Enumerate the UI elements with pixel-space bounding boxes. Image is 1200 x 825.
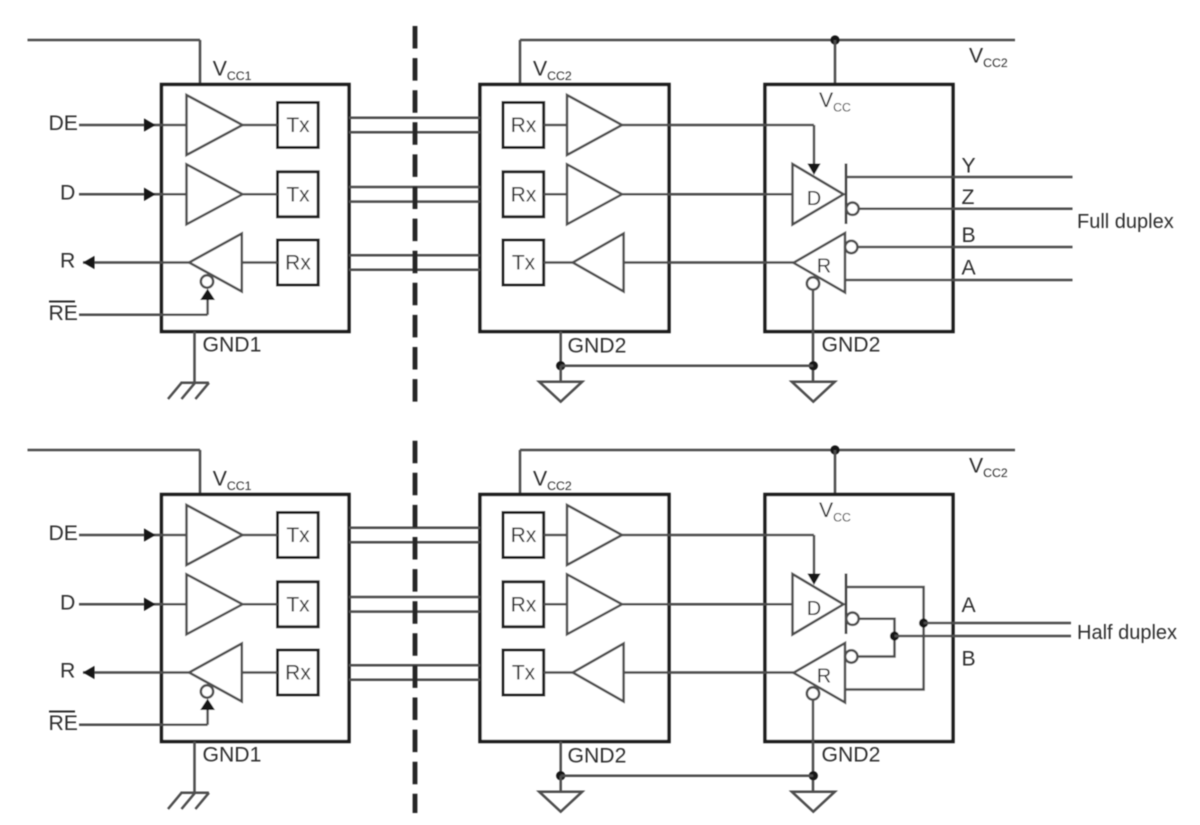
bottom: wire ch1 buffer to Tx1 xyxy=(243,534,278,537)
svg-text:Tx: Tx xyxy=(512,662,536,685)
svg-text:RE: RE xyxy=(49,302,78,325)
bottom: wire RE input with enable arrow xyxy=(79,700,214,725)
top: wire bus line A xyxy=(845,279,1073,282)
top: wire GND2 stem (isolator) xyxy=(559,332,562,366)
top: isolation channel-3 wire pair xyxy=(349,255,480,270)
top: wire GND1 stem xyxy=(193,332,196,383)
bottom: isolation channel-3 wire pair xyxy=(349,665,480,680)
svg-text:Rx: Rx xyxy=(285,252,311,275)
bottom: label VCC1 xyxy=(213,468,252,494)
svg-text:D: D xyxy=(807,188,821,210)
top: wire D input xyxy=(79,189,187,201)
svg-text:GND2: GND2 xyxy=(568,745,627,768)
top: label Z xyxy=(962,186,975,209)
svg-text:VCC1: VCC1 xyxy=(213,468,252,494)
bottom: wire bus line A xyxy=(924,622,1071,625)
bottom: wire VCC stem into transceiver xyxy=(834,450,837,495)
top: junction node GND2 right xyxy=(809,361,818,370)
svg-text:Z: Z xyxy=(962,186,975,209)
bottom: label B xyxy=(962,648,976,671)
bottom: wire R output xyxy=(83,667,189,679)
bottom: buffer amp channel-1 side-2 xyxy=(567,505,622,565)
top: wire ch2 buffer to Tx2 xyxy=(243,193,278,196)
bottom: wire Y looped to A input xyxy=(845,587,924,690)
bottom: wire Rx3 to ch2 buffer xyxy=(544,603,567,606)
svg-text:R: R xyxy=(817,666,831,688)
svg-text:D: D xyxy=(807,598,821,620)
top: wire Rx1 to ch3 buffer xyxy=(242,261,278,264)
bottom: label VCC (transceiver) xyxy=(819,499,851,525)
bottom: RS-485 transceiver block U2 xyxy=(765,495,953,742)
top: wire VCC1 supply rail xyxy=(28,40,201,85)
svg-text:VCC2: VCC2 xyxy=(533,468,572,494)
top: isolation channel-1 wire pair xyxy=(349,118,480,133)
top: driver output bar xyxy=(845,164,848,225)
bottom: label R (receiver) xyxy=(817,666,831,688)
bottom: wire GND2 stub left xyxy=(559,776,562,792)
bottom: label A xyxy=(962,594,977,617)
svg-text:A: A xyxy=(962,257,977,280)
svg-text:RE: RE xyxy=(49,712,78,735)
top: label B xyxy=(962,224,976,247)
svg-text:VCC2: VCC2 xyxy=(969,45,1008,71)
svg-text:D: D xyxy=(60,591,75,614)
top: label DE xyxy=(49,112,78,135)
svg-text:B: B xyxy=(962,224,976,247)
bottom: ground symbol GND2 right xyxy=(792,792,835,812)
top: label A xyxy=(962,257,977,280)
top: label R xyxy=(60,250,75,273)
svg-text:VCC2: VCC2 xyxy=(533,58,572,84)
bottom: wire D input xyxy=(79,599,187,611)
top: wire VCC stem into transceiver xyxy=(834,40,837,85)
top: junction node VCC2/VCC xyxy=(830,35,839,44)
svg-text:D: D xyxy=(60,181,75,204)
bottom: driver D triangle xyxy=(793,574,844,635)
bottom: inverting bubble B input xyxy=(845,650,857,662)
bottom: isolation receiver box Rx2 (side-2) xyxy=(503,513,544,558)
bottom: label D xyxy=(60,591,75,614)
top: wire D data to driver xyxy=(622,193,793,196)
bottom: isolation transmitter box Tx1 (side-1) xyxy=(278,513,319,558)
top: buffer amp channel-2 (D) xyxy=(187,164,243,224)
svg-text:Rx: Rx xyxy=(285,662,311,685)
bottom: buffer amp channel-3 side-2 xyxy=(573,644,624,702)
bottom: wire GND2 rail xyxy=(561,774,814,777)
top: wire bus line B xyxy=(858,246,1073,249)
bottom: wire DE input xyxy=(79,529,187,541)
top: wire RE input with enable arrow xyxy=(79,290,214,315)
svg-text:GND2: GND2 xyxy=(568,335,627,358)
top: wire bus line Y xyxy=(846,176,1073,179)
top: label Full duplex xyxy=(1077,211,1174,233)
svg-text:Full duplex: Full duplex xyxy=(1077,211,1174,233)
bottom: digital isolator block U1 side-2 xyxy=(480,495,669,742)
svg-text:Rx: Rx xyxy=(511,594,537,617)
svg-text:Tx: Tx xyxy=(286,184,310,207)
top: wire GND2 rail xyxy=(561,364,814,367)
svg-text:VCC1: VCC1 xyxy=(213,58,252,84)
top: wire receiver R output xyxy=(624,261,794,264)
top: label GND2 (isolator) xyxy=(568,335,627,358)
bottom: label DE xyxy=(49,522,78,545)
top: label VCC2 (isolator) xyxy=(533,58,572,84)
top: receiver enable bubble xyxy=(807,277,819,289)
top: wire DE enable to driver xyxy=(622,125,820,174)
svg-text:GND1: GND1 xyxy=(203,744,262,767)
svg-text:Half duplex: Half duplex xyxy=(1077,622,1177,644)
bottom: receiver R triangle xyxy=(794,643,846,703)
bottom: label GND2 (transceiver) xyxy=(822,744,881,767)
top: wire ch1 buffer to Tx1 xyxy=(243,124,278,127)
bottom: inverting bubble Z xyxy=(846,613,858,625)
bottom: buffer amp channel-3 (R, output) xyxy=(189,644,242,702)
svg-text:GND2: GND2 xyxy=(822,334,881,357)
top: label Y xyxy=(962,155,976,178)
svg-text:A: A xyxy=(962,594,977,617)
bottom: wire ch3 buffer to Tx3 xyxy=(544,671,573,674)
bottom: driver output bar xyxy=(845,574,848,635)
svg-text:GND2: GND2 xyxy=(822,744,881,767)
top: buffer amp channel-2 side-2 xyxy=(567,164,622,224)
bottom: label R xyxy=(60,660,75,683)
bottom: isolation channel-2 wire pair xyxy=(349,597,480,612)
bottom: wire VCC2 supply rail xyxy=(520,450,1015,495)
top: label VCC1 xyxy=(213,58,252,84)
bottom: label D (driver) xyxy=(807,598,821,620)
bottom: junction node VCC2/VCC xyxy=(830,445,839,454)
bottom: wire DE enable to driver xyxy=(622,535,820,584)
bottom: label RE (active low) xyxy=(49,712,78,735)
bottom: label VCC2 (rail) xyxy=(969,455,1008,481)
bottom: isolation receiver box Rx1 (side-1) xyxy=(278,650,319,695)
bottom: wire Z looped to B input xyxy=(858,619,895,657)
svg-text:Y: Y xyxy=(962,155,976,178)
top: isolation receiver box Rx2 (side-2) xyxy=(503,103,544,148)
top: label GND1 xyxy=(203,334,262,357)
bottom: isolation channel-1 wire pair xyxy=(349,528,480,543)
svg-text:Rx: Rx xyxy=(511,114,537,137)
bottom: wire GND2 stem (isolator) xyxy=(559,742,562,776)
bottom: isolation receiver box Rx3 (side-2) xyxy=(503,582,544,627)
bottom: ground symbol GND2 left xyxy=(539,792,582,812)
top: isolation transmitter box Tx2 (side-1) xyxy=(278,172,319,217)
top: label D xyxy=(60,181,75,204)
top: wire bus line Z xyxy=(859,207,1073,210)
bottom: junction node B xyxy=(890,631,899,640)
top: isolation channel-2 wire pair xyxy=(349,187,480,202)
top: isolation transmitter box Tx1 (side-1) xyxy=(278,103,319,148)
bottom: enable bubble on channel-3 buffer xyxy=(201,685,213,697)
bottom: receiver enable bubble xyxy=(807,687,819,699)
svg-text:B: B xyxy=(962,648,976,671)
top: buffer amp channel-3 (R, output) xyxy=(189,234,242,292)
top: inverting bubble B xyxy=(845,241,857,253)
bottom: junction node GND2 right xyxy=(809,771,818,780)
top: label D (driver) xyxy=(807,188,821,210)
top: enable bubble on channel-3 buffer xyxy=(201,275,213,287)
top: inverting bubble Z xyxy=(846,203,858,215)
bottom: label VCC2 (isolator) xyxy=(533,468,572,494)
top: ground symbol GND2 left xyxy=(539,382,582,402)
top: label R (receiver) xyxy=(817,256,831,278)
bottom: wire GND1 stem xyxy=(193,742,196,793)
top: buffer amp channel-1 side-2 xyxy=(567,95,622,155)
bottom: wire Rx1 to ch3 buffer xyxy=(242,671,278,674)
top: label GND2 (transceiver) xyxy=(822,334,881,357)
bottom: wire RE-bar tied to GND2 xyxy=(812,700,815,792)
isolation barrier (dashed line, lower) xyxy=(413,441,418,813)
top: earth ground GND1 xyxy=(168,383,209,399)
top: isolation receiver box Rx3 (side-2) xyxy=(503,172,544,217)
bottom: buffer amp channel-2 (D) xyxy=(187,574,243,634)
top: junction node GND2 left xyxy=(556,361,565,370)
bottom: buffer amp channel-1 (DE) xyxy=(187,505,243,565)
top: buffer amp channel-3 side-2 xyxy=(573,234,624,292)
bottom: junction node GND2 left xyxy=(556,771,565,780)
svg-text:R: R xyxy=(817,256,831,278)
top: wire DE input xyxy=(79,119,187,131)
bottom: label GND1 xyxy=(203,744,262,767)
top: label RE (active low) xyxy=(49,302,78,325)
bottom: wire D data to driver xyxy=(622,603,793,606)
bottom: isolation transmitter box Tx3 (side-2) xyxy=(503,650,544,695)
bottom: earth ground GND1 xyxy=(168,793,209,809)
bottom: buffer amp channel-2 side-2 xyxy=(567,574,622,634)
bottom: wire Rx2 to ch1 buffer xyxy=(544,534,567,537)
bottom: label Half duplex xyxy=(1077,622,1177,644)
bottom: wire ch2 buffer to Tx2 xyxy=(243,603,278,606)
svg-text:Tx: Tx xyxy=(512,252,536,275)
top: buffer amp channel-1 (DE) xyxy=(187,95,243,155)
svg-text:Tx: Tx xyxy=(286,114,310,137)
svg-text:Rx: Rx xyxy=(511,524,537,547)
top: wire VCC2 supply rail xyxy=(520,40,1015,85)
svg-text:DE: DE xyxy=(49,112,78,135)
bottom: wire receiver R output xyxy=(624,671,794,674)
svg-text:DE: DE xyxy=(49,522,78,545)
bottom: digital isolator block U1 side-1 xyxy=(162,495,350,742)
bottom: isolation transmitter box Tx2 (side-1) xyxy=(278,582,319,627)
svg-text:Tx: Tx xyxy=(286,594,310,617)
top: wire GND2 stub left xyxy=(559,366,562,382)
top: label VCC2 (rail) xyxy=(969,45,1008,71)
svg-text:VCC2: VCC2 xyxy=(969,455,1008,481)
svg-text:Rx: Rx xyxy=(511,184,537,207)
top: digital isolator block U1 side-2 xyxy=(480,85,669,332)
top: wire ch3 buffer to Tx3 xyxy=(544,261,573,264)
svg-text:R: R xyxy=(60,250,75,273)
top: driver D triangle xyxy=(793,164,844,225)
bottom: label GND2 (isolator) xyxy=(568,745,627,768)
svg-text:Tx: Tx xyxy=(286,524,310,547)
bottom: wire VCC1 supply rail xyxy=(28,450,201,495)
isolation barrier (dashed line, upper) xyxy=(413,26,418,404)
top: receiver R triangle xyxy=(794,233,846,293)
top: isolation transmitter box Tx3 (side-2) xyxy=(503,240,544,285)
top: wire R output xyxy=(83,257,189,269)
top: RS-485 transceiver block U2 xyxy=(765,85,953,332)
top: isolation receiver box Rx1 (side-1) xyxy=(278,240,319,285)
svg-text:R: R xyxy=(60,660,75,683)
bottom: wire bus line B xyxy=(895,635,1072,638)
top: wire RE-bar tied to GND2 xyxy=(812,290,815,382)
top: wire Rx3 to ch2 buffer xyxy=(544,193,567,196)
svg-text:GND1: GND1 xyxy=(203,334,262,357)
bottom: junction node A xyxy=(919,618,928,627)
top: wire Rx2 to ch1 buffer xyxy=(544,124,567,127)
top: ground symbol GND2 right xyxy=(792,382,835,402)
top: digital isolator block U1 side-1 xyxy=(162,85,350,332)
top: label VCC (transceiver) xyxy=(819,89,851,115)
